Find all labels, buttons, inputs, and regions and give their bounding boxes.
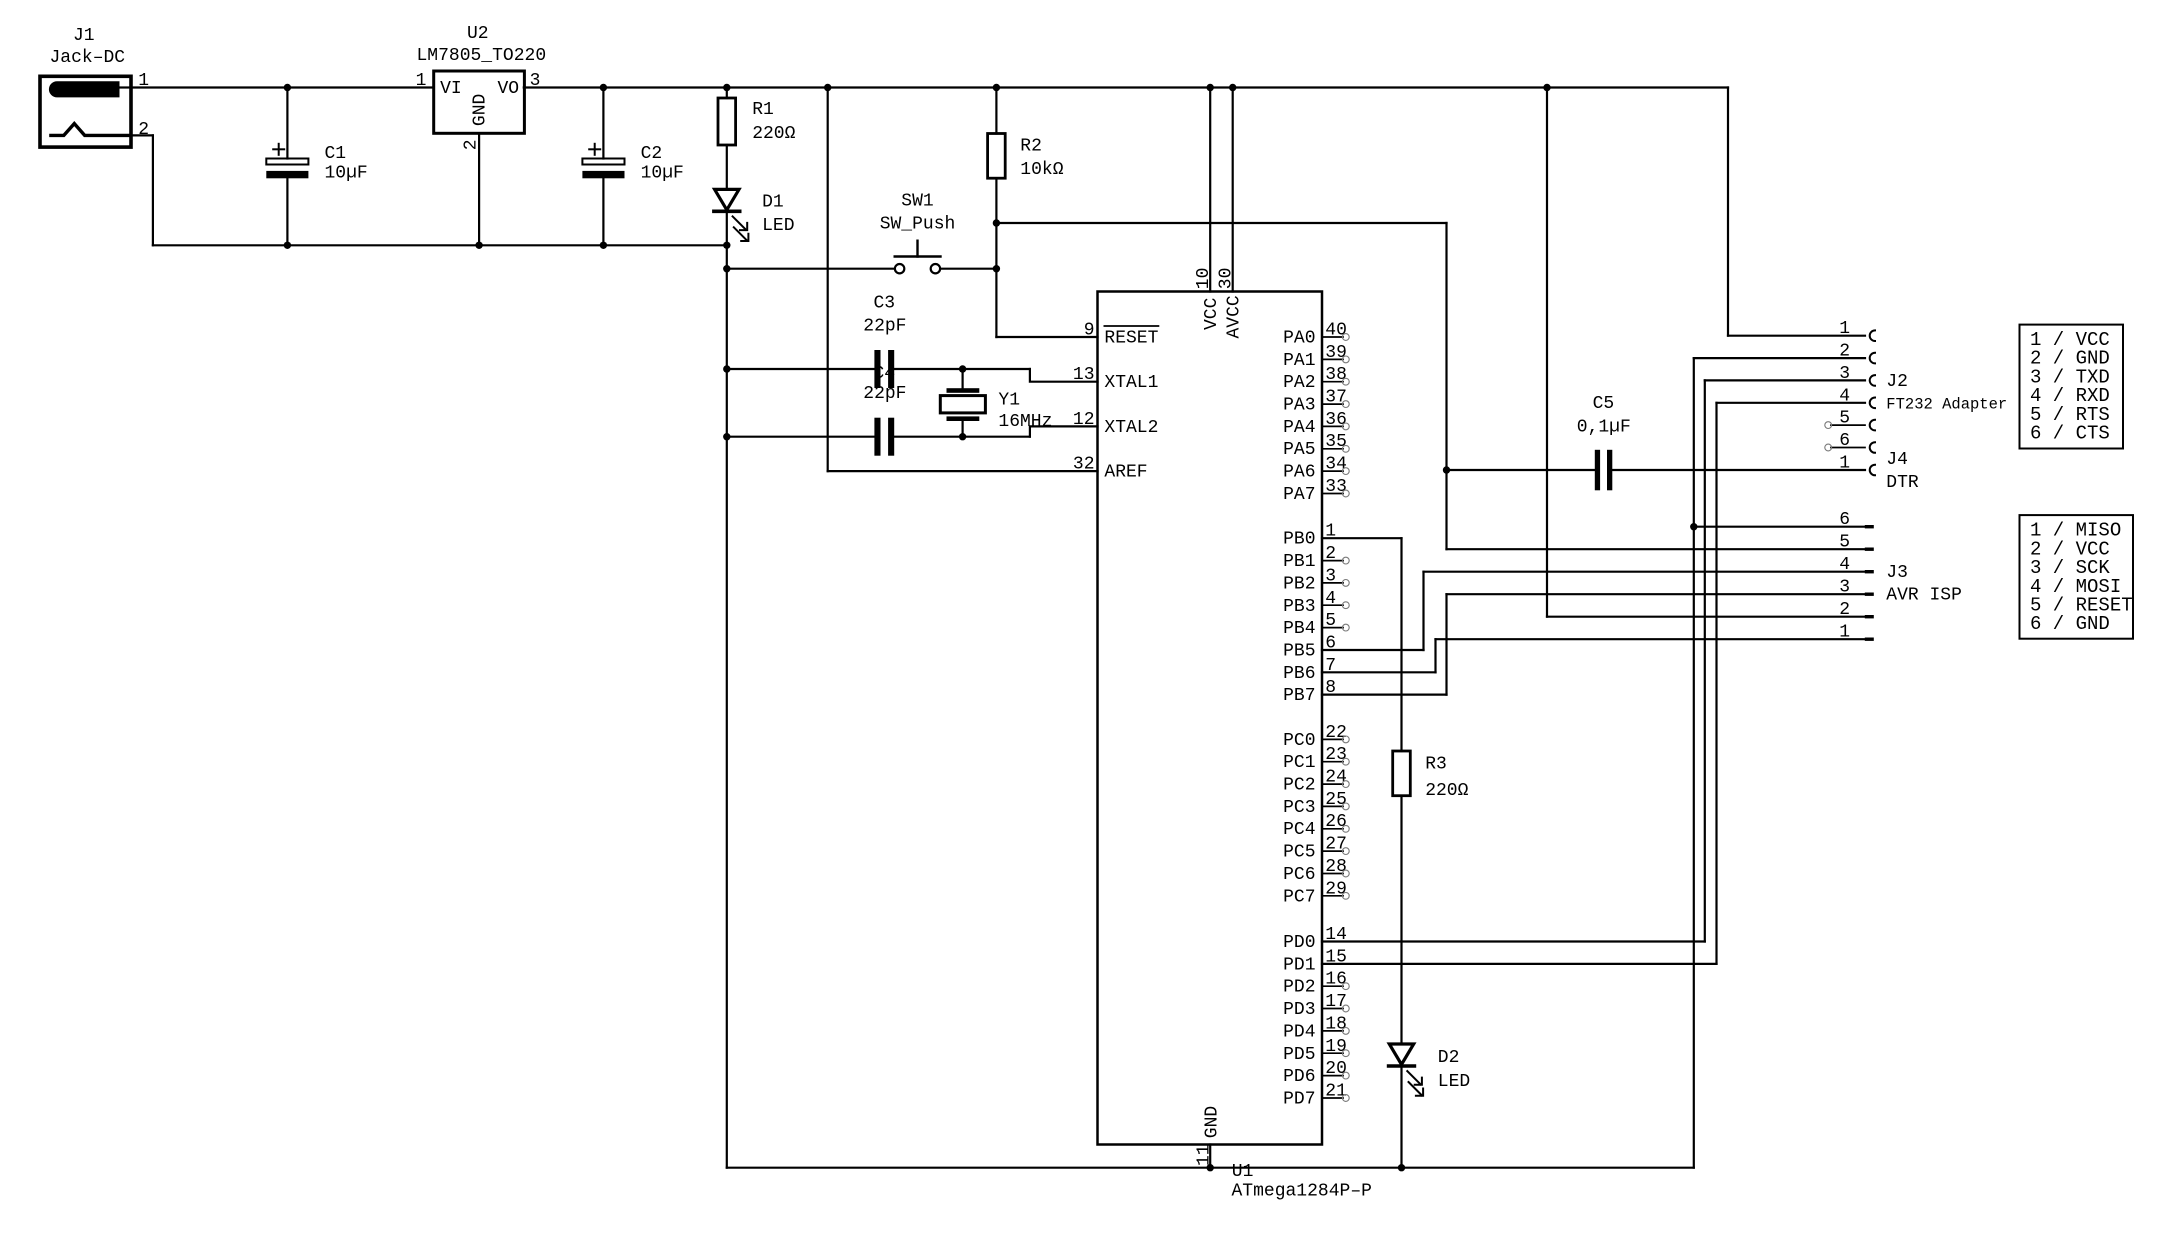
svg-text:4: 4 — [1839, 555, 1850, 575]
pin 20 PD6 — [1283, 1059, 1349, 1087]
capacitor C1 10uF — [266, 88, 367, 246]
junction GND pin 11 — [1207, 1164, 1214, 1171]
crystal Y1 16MHz — [940, 369, 1052, 437]
svg-text:PB2: PB2 — [1283, 574, 1315, 594]
junction GND rail / D1 column — [723, 242, 730, 249]
wire J3 pin5 RESET — [1447, 548, 1866, 550]
J2 pin 3 — [1839, 364, 1875, 386]
svg-text:R3: R3 — [1425, 755, 1447, 775]
svg-text:10: 10 — [1194, 268, 1214, 290]
wire J3 pin4 MOSI — [1424, 571, 1866, 573]
svg-text:C5: C5 — [1593, 394, 1615, 414]
wire AREF to pin 32 — [828, 470, 1098, 472]
svg-text:SW1: SW1 — [901, 191, 933, 211]
svg-text:PA4: PA4 — [1283, 418, 1315, 438]
J3 pin 3 — [1839, 578, 1874, 598]
LED D1 — [714, 189, 795, 241]
svg-text:Y1: Y1 — [998, 390, 1020, 410]
svg-text:PA0: PA0 — [1283, 329, 1315, 349]
svg-text:PC1: PC1 — [1283, 753, 1315, 773]
svg-text:ATmega1284P–P: ATmega1284P–P — [1232, 1182, 1372, 1202]
svg-text:U2: U2 — [467, 24, 489, 44]
wire RESET row — [996, 222, 1446, 224]
junction D2 GND — [1398, 1164, 1405, 1171]
junction C1 top — [284, 84, 291, 91]
svg-text:0,1µF: 0,1µF — [1577, 418, 1631, 438]
pin 21 PD7 — [1283, 1082, 1349, 1110]
pin 33 PA7 — [1283, 477, 1349, 505]
svg-text:PB7: PB7 — [1283, 686, 1315, 706]
svg-text:PD6: PD6 — [1283, 1067, 1315, 1087]
wire TXD vertical — [1704, 380, 1706, 941]
svg-text:6: 6 — [1839, 510, 1850, 530]
svg-text:PA7: PA7 — [1283, 485, 1315, 505]
svg-text:PB3: PB3 — [1283, 597, 1315, 617]
junction R1 top — [723, 84, 730, 91]
svg-text:R1: R1 — [752, 100, 774, 120]
junction AREF top — [824, 84, 831, 91]
wire J1 pin2 down — [152, 135, 154, 245]
svg-text:2: 2 — [1839, 342, 1850, 362]
wire J2 pin1 — [1728, 335, 1865, 337]
svg-text:5: 5 — [1839, 533, 1850, 553]
junction J3 pin6 GND — [1690, 523, 1697, 530]
J3 pin 4 — [1839, 555, 1874, 575]
svg-text:PC5: PC5 — [1283, 843, 1315, 863]
pin 27 PC5 — [1283, 835, 1349, 863]
svg-text:22pF: 22pF — [863, 317, 906, 337]
svg-text:C1: C1 — [325, 144, 347, 164]
table FT232 pinout — [2020, 325, 2124, 449]
svg-text:PC4: PC4 — [1283, 820, 1315, 840]
svg-text:10µF: 10µF — [641, 164, 684, 184]
pin 5 PB4 — [1283, 611, 1349, 639]
wire VCC down to J2 pin1 — [1727, 88, 1729, 336]
switch SW1 SW_Push — [727, 191, 997, 273]
wire VCC top rail left — [131, 86, 434, 88]
svg-text:6 / GND: 6 / GND — [2030, 613, 2110, 635]
svg-text:PC3: PC3 — [1283, 798, 1315, 818]
svg-text:PA1: PA1 — [1283, 351, 1315, 371]
wire PD0 RXD0 — [1322, 940, 1705, 942]
svg-text:220Ω: 220Ω — [1425, 781, 1468, 801]
svg-text:PD5: PD5 — [1283, 1045, 1315, 1065]
pin 15 PD1 — [1283, 947, 1347, 975]
pin 17 PD3 — [1283, 992, 1349, 1020]
wire GND bottom rail — [727, 1167, 1694, 1169]
pin 38 PA2 — [1283, 365, 1349, 393]
svg-text:2: 2 — [138, 120, 149, 140]
pin 34 PA6 — [1283, 455, 1349, 483]
svg-text:J3: J3 — [1886, 563, 1908, 583]
junction SW1 row — [723, 265, 730, 272]
svg-text:VCC: VCC — [1202, 297, 1222, 330]
pin 18 PD4 — [1283, 1014, 1349, 1042]
pin 1 PB0 — [1283, 522, 1336, 550]
svg-text:30: 30 — [1216, 268, 1236, 290]
pin 37 PA3 — [1283, 388, 1349, 416]
junction C2 top — [600, 84, 607, 91]
wire J3 pin3 SCK — [1447, 593, 1866, 595]
svg-text:12: 12 — [1073, 410, 1095, 430]
wire PB0 down to R3 — [1400, 538, 1402, 751]
svg-text:PD1: PD1 — [1283, 955, 1315, 975]
J2 pin 6 — [1825, 431, 1875, 453]
svg-text:DTR: DTR — [1886, 473, 1919, 493]
svg-text:D2: D2 — [1438, 1048, 1460, 1068]
wire MOSI vertical — [1422, 572, 1424, 650]
pin 4 PB3 — [1283, 589, 1349, 617]
IC U1 ATmega1284P-P body — [1098, 292, 1323, 1145]
svg-text:9: 9 — [1084, 321, 1095, 341]
pin 6 PB5 — [1283, 634, 1336, 662]
wire PB6 MISO — [1322, 671, 1436, 673]
junction crystal bottom — [959, 433, 966, 440]
capacitor C5 0.1uF — [1447, 394, 1866, 490]
svg-text:PA5: PA5 — [1283, 440, 1315, 460]
wire VCC vertical to J3 — [1546, 88, 1548, 617]
pin 40 PA0 — [1283, 321, 1349, 349]
wire GND pin 11 — [1209, 1145, 1211, 1168]
wire GND left rail — [153, 244, 727, 246]
svg-text:10kΩ: 10kΩ — [1020, 160, 1063, 180]
svg-text:PD3: PD3 — [1283, 1000, 1315, 1020]
wire RXD vertical — [1715, 403, 1717, 964]
pin 19 PD5 — [1283, 1037, 1349, 1065]
svg-text:C2: C2 — [641, 144, 663, 164]
junction AVCC pin — [1229, 84, 1236, 91]
svg-text:VO: VO — [497, 79, 519, 99]
svg-text:PB0: PB0 — [1283, 530, 1315, 550]
wire RESET vertical right — [1445, 223, 1447, 549]
capacitor C3 plates — [874, 350, 880, 388]
wire GND vertical right — [1693, 358, 1695, 1168]
J3 pin 1 — [1839, 623, 1874, 643]
wire D2 cathode down — [1400, 1066, 1402, 1168]
svg-text:RESET: RESET — [1104, 329, 1158, 349]
svg-text:32: 32 — [1073, 455, 1095, 475]
junction VCC J3 — [1543, 84, 1550, 91]
pin 28 PC6 — [1283, 857, 1349, 885]
svg-text:13: 13 — [1073, 365, 1095, 385]
svg-text:PB6: PB6 — [1283, 664, 1315, 684]
J2 pin 4 — [1839, 386, 1875, 408]
wire SCK vertical — [1445, 594, 1447, 694]
svg-text:1: 1 — [1839, 454, 1850, 474]
pin 2 PB1 — [1283, 544, 1349, 572]
svg-text:PD7: PD7 — [1283, 1090, 1315, 1110]
wire XTAL1 row left — [727, 368, 878, 370]
svg-text:PB5: PB5 — [1283, 642, 1315, 662]
J3 pin 6 — [1839, 510, 1874, 530]
svg-text:PC7: PC7 — [1283, 887, 1315, 907]
wire PB0 to R3 — [1322, 537, 1402, 539]
svg-text:LED: LED — [762, 216, 794, 236]
wire XTAL2 jog to pin 12 — [1030, 426, 1098, 436]
svg-text:C3: C3 — [873, 294, 895, 314]
svg-text:PA6: PA6 — [1283, 463, 1315, 483]
svg-text:3: 3 — [530, 71, 541, 91]
svg-text:PC2: PC2 — [1283, 776, 1315, 796]
pin 22 PC0 — [1283, 723, 1349, 751]
svg-text:SW_Push: SW_Push — [880, 214, 956, 234]
junction R2 bottom — [993, 219, 1000, 226]
junction RESET / C5 — [1443, 466, 1450, 473]
wire AVCC pin 30 — [1232, 88, 1234, 292]
svg-text:PB1: PB1 — [1283, 552, 1315, 572]
connector J4 DTR — [1839, 450, 1919, 493]
wire J3 pin1 MISO — [1436, 638, 1866, 640]
svg-text:J2: J2 — [1886, 372, 1908, 392]
svg-text:1: 1 — [416, 71, 427, 91]
wire J2 pin3 TXD — [1705, 379, 1865, 381]
pin 3 PB2 — [1283, 566, 1349, 594]
svg-text:3: 3 — [1839, 578, 1850, 598]
J2 pin 1 — [1839, 319, 1875, 341]
junction crystal top — [959, 365, 966, 372]
pin 24 PC2 — [1283, 768, 1349, 796]
svg-text:FT232 Adapter: FT232 Adapter — [1886, 396, 2007, 414]
svg-text:16MHz: 16MHz — [998, 412, 1052, 432]
svg-text:XTAL2: XTAL2 — [1104, 418, 1158, 438]
wire PD1 TXD0 — [1322, 963, 1717, 965]
J2 pin 2 — [1839, 342, 1875, 364]
svg-text:LED: LED — [1438, 1072, 1470, 1092]
svg-text:AREF: AREF — [1104, 463, 1147, 483]
wire RESET vertical at SW1 — [995, 223, 997, 337]
svg-text:1: 1 — [1839, 319, 1850, 339]
svg-text:J4: J4 — [1886, 450, 1908, 470]
wire XTAL1 jog to pin 13 — [1030, 369, 1098, 382]
wire to RESET pin 9 — [996, 336, 1097, 338]
pin 35 PA5 — [1283, 432, 1349, 460]
junction SW1 right — [993, 265, 1000, 272]
svg-text:PA2: PA2 — [1283, 373, 1315, 393]
wire XTAL2 row left — [727, 436, 878, 438]
junction XTAL1 left — [723, 365, 730, 372]
svg-text:10µF: 10µF — [325, 164, 368, 184]
wire XTAL2 row right — [891, 436, 1030, 438]
svg-text:D1: D1 — [762, 193, 784, 213]
wire PB5 MOSI — [1322, 649, 1424, 651]
junction R2 top — [993, 84, 1000, 91]
J3 pin 5 — [1839, 533, 1874, 553]
junction VCC pin — [1207, 84, 1214, 91]
capacitor C2 10uF — [582, 88, 683, 246]
table AVR ISP pinout — [2020, 515, 2134, 639]
resistor R2 10k — [988, 88, 1064, 224]
svg-text:PA3: PA3 — [1283, 396, 1315, 416]
svg-text:22pF: 22pF — [863, 384, 906, 404]
wire PB7 SCK — [1322, 693, 1447, 695]
pin 25 PC3 — [1283, 790, 1349, 818]
svg-text:3: 3 — [1839, 364, 1850, 384]
resistor R3 220ohm — [1393, 751, 1469, 1044]
svg-text:PB4: PB4 — [1283, 619, 1315, 639]
svg-text:220Ω: 220Ω — [752, 124, 795, 144]
svg-text:PD2: PD2 — [1283, 978, 1315, 998]
svg-text:4: 4 — [1839, 386, 1850, 406]
capacitor C4 plates — [874, 418, 880, 456]
wire XTAL1 row right — [891, 368, 1030, 370]
J2 pin 5 — [1825, 409, 1875, 431]
wire J3 pin2 VCC — [1547, 616, 1865, 618]
svg-text:PC0: PC0 — [1283, 731, 1315, 751]
svg-text:GND: GND — [1202, 1106, 1222, 1138]
regulator U2 LM7805_TO220 — [416, 24, 547, 245]
pin 39 PA1 — [1283, 343, 1349, 371]
wire MISO vertical — [1434, 639, 1436, 672]
pin 36 PA4 — [1283, 410, 1349, 438]
pin 23 PC1 — [1283, 745, 1349, 773]
svg-text:2: 2 — [1839, 600, 1850, 620]
pin 14 PD0 — [1283, 925, 1347, 953]
svg-text:R2: R2 — [1020, 136, 1042, 156]
connector J1 Jack-DC — [40, 26, 149, 147]
resistor R1 220ohm — [718, 88, 796, 190]
svg-text:6 / CTS: 6 / CTS — [2030, 423, 2110, 445]
svg-text:PD4: PD4 — [1283, 1022, 1315, 1042]
junction C2 bottom — [600, 242, 607, 249]
junction XTAL2 left — [723, 433, 730, 440]
J3 pin 2 — [1839, 600, 1874, 620]
wire J1 pin2 — [131, 134, 153, 136]
pin 16 PD2 — [1283, 970, 1349, 998]
LED D2 — [1389, 1044, 1471, 1096]
svg-text:GND: GND — [471, 94, 491, 126]
svg-text:AVR ISP: AVR ISP — [1886, 586, 1962, 606]
wire D1 cathode / GND vertical — [726, 211, 728, 1167]
svg-text:PD0: PD0 — [1283, 933, 1315, 953]
junction C1 bottom — [284, 242, 291, 249]
svg-text:J1: J1 — [73, 26, 95, 46]
svg-text:11: 11 — [1195, 1144, 1215, 1166]
pin 29 PC7 — [1283, 879, 1349, 907]
wire J3 pin6 — [1694, 526, 1865, 528]
wire VCC pin 10 — [1209, 88, 1211, 292]
svg-text:LM7805_TO220: LM7805_TO220 — [417, 46, 547, 66]
pin 8 PB7 — [1283, 678, 1336, 706]
junction U2 GND — [475, 242, 482, 249]
svg-text:1: 1 — [1839, 623, 1850, 643]
svg-text:U1: U1 — [1232, 1162, 1254, 1182]
svg-text:AVCC: AVCC — [1224, 295, 1244, 338]
wire VCC top rail right — [524, 86, 1728, 88]
svg-text:XTAL1: XTAL1 — [1104, 373, 1158, 393]
svg-text:PC6: PC6 — [1283, 865, 1315, 885]
pin 26 PC4 — [1283, 812, 1349, 840]
pin 7 PB6 — [1283, 656, 1336, 684]
svg-text:Jack–DC: Jack–DC — [50, 48, 126, 68]
svg-text:VI: VI — [440, 79, 462, 99]
wire AREF vertical — [827, 88, 829, 472]
wire J2 pin4 RXD — [1717, 402, 1866, 404]
wire J2 pin2 GND — [1694, 357, 1865, 359]
